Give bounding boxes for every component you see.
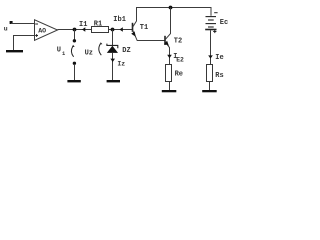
svg-text:AO: AO	[38, 28, 46, 35]
resistor R1	[92, 27, 109, 33]
svg-text:U: U	[57, 47, 61, 55]
svg-text:Ib1: Ib1	[113, 16, 126, 24]
transistor T1 base bar	[132, 23, 134, 32]
transistor T1 collector	[133, 8, 137, 28]
transistor T1 emitter	[133, 30, 137, 41]
wire Rs to ground	[209, 82, 211, 91]
transistor T2 base bar	[164, 36, 166, 45]
svg-text:Ie: Ie	[215, 54, 223, 62]
svg-text:1: 1	[62, 51, 65, 57]
wire inverting input	[11, 23, 35, 25]
op-amp plus pin mark	[35, 35, 38, 37]
transistor T2 collector	[165, 8, 171, 40]
transistor T2 emitter	[165, 42, 170, 65]
zener diode DZ body	[107, 46, 118, 53]
wire battery to Rs	[210, 30, 212, 64]
resistor Re	[166, 65, 172, 82]
battery Ec bottom plate	[205, 29, 216, 31]
battery Ec plate short 1	[208, 19, 214, 21]
wire top rail	[136, 7, 212, 9]
wire zener to ground	[112, 53, 114, 81]
wire T1 emitter to T2 base	[137, 40, 165, 42]
current arrow Iz	[110, 59, 115, 62]
svg-text:Uz: Uz	[85, 50, 93, 58]
svg-text:T2: T2	[174, 38, 182, 46]
ground DZ	[107, 80, 120, 82]
svg-text:Rs: Rs	[215, 72, 223, 80]
svg-text:I1: I1	[79, 21, 87, 29]
input terminal dot	[10, 21, 13, 24]
node zener branch junction	[111, 28, 115, 32]
wire op-amp output	[58, 29, 92, 31]
current arrow IE2	[167, 55, 172, 58]
op-amp minus pin mark	[35, 23, 38, 25]
wire junction down to zener	[112, 30, 114, 46]
wire R1 to T1 base	[109, 29, 133, 31]
svg-text:Iz: Iz	[117, 61, 125, 68]
voltage arrow Uz	[99, 44, 102, 55]
ground Re	[162, 90, 177, 92]
battery minus sign	[214, 12, 217, 14]
node output junction	[73, 28, 77, 32]
svg-text:Ec: Ec	[220, 19, 228, 27]
battery Ec plate short 2	[208, 26, 214, 28]
zener diode DZ cathode bar	[107, 44, 118, 49]
current arrow Ib1	[120, 27, 123, 32]
svg-text:u: u	[4, 25, 8, 32]
svg-text:Re: Re	[175, 70, 183, 78]
wire non-inverting input	[14, 36, 35, 51]
battery Ec plate long 2	[206, 23, 217, 25]
ground Rs	[202, 90, 217, 92]
wire U1 terminal to ground	[74, 64, 76, 81]
svg-text:DZ: DZ	[122, 47, 130, 55]
svg-text:T1: T1	[140, 24, 148, 32]
transistor T1 emitter arrow	[131, 31, 136, 36]
node U1 top terminal	[73, 39, 76, 42]
wire Re to ground	[169, 82, 171, 91]
op-amp U=AO triangle	[35, 20, 58, 41]
voltage arrow U1	[71, 46, 73, 56]
node T2 collector junction	[169, 6, 173, 10]
current arrow Ie	[208, 55, 213, 58]
current arrow I1	[82, 27, 85, 32]
svg-text:E2: E2	[176, 57, 184, 64]
battery plus sign	[213, 31, 216, 33]
ground U1	[67, 80, 80, 82]
resistor Rs	[207, 65, 213, 82]
node U1 bottom terminal	[73, 62, 76, 65]
transistor T2 emitter arrow	[164, 41, 169, 46]
ground (op-amp + input)	[6, 50, 23, 52]
svg-text:R1: R1	[94, 21, 102, 29]
battery wire from rail	[210, 8, 212, 16]
wire output node down to U1 terminal	[74, 30, 76, 41]
battery Ec plate long 1	[206, 16, 217, 18]
